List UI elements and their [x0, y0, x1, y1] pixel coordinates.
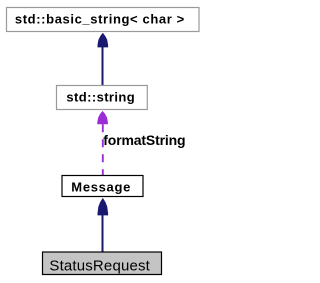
- svg-text:formatString: formatString: [103, 132, 185, 148]
- svg-text:Message: Message: [71, 180, 130, 195]
- svg-text:std::string: std::string: [66, 90, 134, 105]
- svg-text:std::basic_string< char >: std::basic_string< char >: [15, 11, 185, 26]
- svg-text:StatusRequest: StatusRequest: [49, 258, 150, 275]
